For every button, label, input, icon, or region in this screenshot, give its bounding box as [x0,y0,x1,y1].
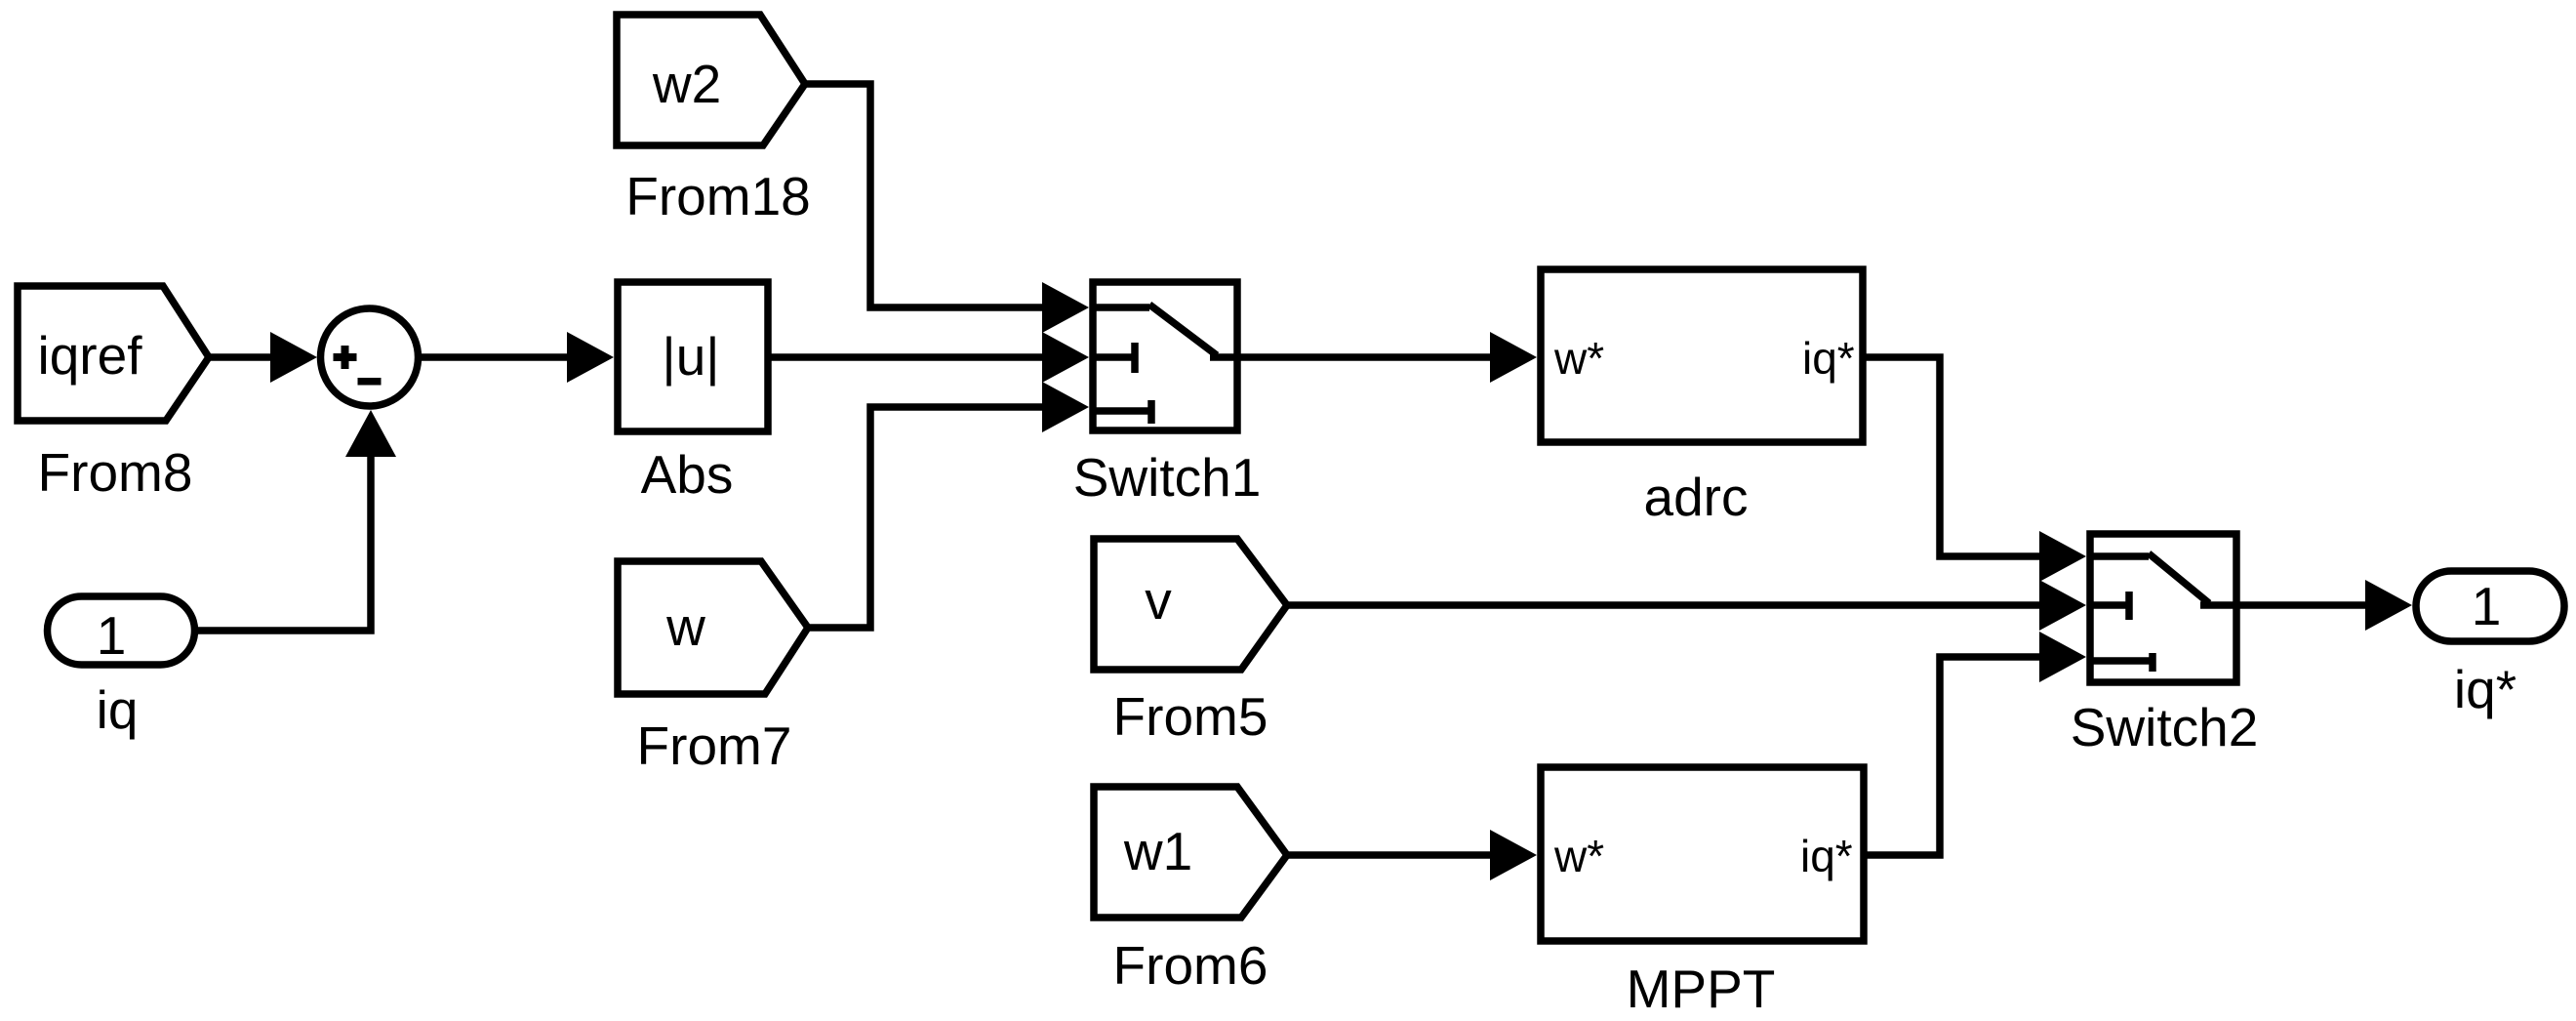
wire Switch2 to output port [2236,601,2389,609]
wire sum to Abs [422,353,590,361]
svg-text:w*: w* [1553,333,1604,384]
wire MPPT to Switch2 port3 [1864,657,2063,855]
wire adrc to Switch2 port1 [1863,357,2063,556]
from tag From6 (w1) [1094,787,1287,918]
wire Switch1 to adrc [1237,353,1513,361]
from tag From7 (w) [618,561,808,694]
svg-text:v: v [1145,570,1172,631]
wire Abs to Switch1 port2 [768,353,1066,361]
svg-text:1: 1 [2472,576,2502,636]
svg-text:w*: w* [1553,831,1604,881]
svg-text:w: w [665,596,705,657]
from tag From5 (v) [1094,539,1287,670]
from tag From18 (w2) [617,15,805,145]
from tag From8 (iqref) [18,286,209,421]
svg-text:iq*: iq* [2454,659,2516,719]
svg-text:iq*: iq* [1802,333,1855,384]
input port 1 oval (iq) [48,596,195,666]
wire w1 to MPPT [1287,851,1513,859]
svg-text:Switch1: Switch1 [1073,447,1262,508]
block Switch2 [2090,534,2236,682]
svg-text:|u|: |u| [662,326,719,387]
sum junction [321,308,419,406]
block adrc [1541,269,1863,442]
svg-text:w1: w1 [1123,821,1192,881]
svg-text:w2: w2 [652,54,721,114]
svg-text:From5: From5 [1113,686,1268,747]
svg-text:iq: iq [97,679,139,740]
svg-text:Abs: Abs [641,444,734,505]
wire v to Switch2 port2 [1287,601,2063,609]
svg-text:iq*: iq* [1800,831,1853,881]
svg-text:iqref: iqref [38,325,143,386]
block Switch1 [1093,282,1237,430]
svg-text:From7: From7 [637,715,792,776]
svg-text:1: 1 [97,605,127,666]
wire w2 to Switch1 port1 [805,84,1066,307]
wire w to Switch1 port3 [808,407,1066,628]
wire iqref to sum [209,353,283,361]
block MPPT [1541,767,1864,941]
svg-text:MPPT: MPPT [1627,959,1776,1019]
wire iq to sum minus input [194,449,371,631]
svg-text:From18: From18 [625,166,811,226]
output port 1 oval (iq*) [2416,571,2564,641]
svg-text:From6: From6 [1113,935,1268,996]
svg-text:From8: From8 [38,442,193,503]
svg-text:Switch2: Switch2 [2071,697,2259,757]
block Abs [618,282,768,431]
svg-text:adrc: adrc [1644,467,1749,527]
